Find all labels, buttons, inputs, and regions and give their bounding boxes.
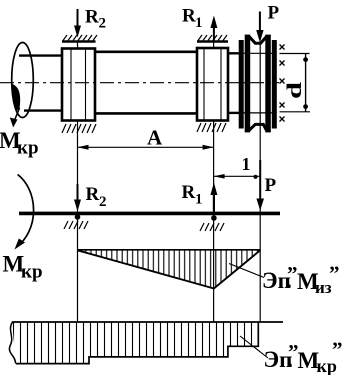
- bearing right: support top line: [197, 40, 228, 43]
- torque Mkr tail arrow: [14, 108, 20, 122]
- leader line Mkr: [240, 336, 268, 358]
- bearing right: bottom hatch: [197, 123, 226, 132]
- svg-text:d: d: [282, 82, 306, 99]
- schematic force R2 arrow: [77, 184, 79, 204]
- schematic R2 node dot: [75, 214, 81, 220]
- shaft right stub: [227, 53, 240, 113]
- bearing left: support top hatch: [63, 35, 97, 41]
- dimension d: extension lines: [280, 53, 310, 55]
- pulley shaft through-lines: [240, 52, 276, 54]
- svg-text:”: ”: [287, 262, 298, 286]
- svg-text:R: R: [182, 6, 196, 27]
- force R2 top arrow: [77, 9, 79, 30]
- pulley top groove: [249, 37, 266, 44]
- svg-text:R: R: [182, 182, 196, 203]
- bearing left: bottom hatch: [62, 124, 96, 133]
- schematic force R1 arrow: [210, 183, 217, 196]
- pulley right wall: [272, 40, 277, 129]
- svg-text:”: ”: [329, 262, 340, 286]
- wire: projection line R1 (x=213.6): [213, 42, 215, 322]
- bearing right: support top hatch: [198, 35, 227, 41]
- bearing right: block: [197, 48, 228, 121]
- torque Mkr ellipse symbol at shaft end: [12, 43, 34, 118]
- svg-text:”: ”: [332, 338, 343, 362]
- pulley right flange: [265, 35, 271, 133]
- bending moment triangle hatch fill: [78, 250, 261, 289]
- torque Mkr arrowhead blob: [12, 84, 20, 111]
- bending moment triangle edges: [78, 250, 261, 288]
- svg-text:1: 1: [242, 154, 251, 174]
- svg-text:R: R: [85, 7, 99, 28]
- svg-text:кр: кр: [21, 262, 43, 283]
- torque diagram wavy break edge: [9, 322, 15, 364]
- schematic torque arc: [18, 174, 34, 246]
- schematic R2 support hatch: [64, 221, 88, 229]
- force P top arrow: [259, 12, 261, 34]
- svg-text:R: R: [86, 184, 100, 205]
- wire: projection line R2 (x=77.5): [77, 42, 79, 322]
- schematic R1 node dot: [211, 215, 217, 221]
- bearing left: support top line: [62, 40, 96, 43]
- pulley bottom groove: [249, 124, 266, 130]
- torque diagram outline: [12, 322, 283, 364]
- torque diagram hatch fill: [12, 322, 258, 364]
- svg-text:P: P: [265, 175, 277, 196]
- leader line Mis: [229, 264, 264, 278]
- svg-text:1: 1: [195, 15, 203, 31]
- bending moment diagram baseline: [78, 249, 261, 251]
- force R1 top arrow: [213, 19, 215, 41]
- svg-text:1: 1: [195, 192, 203, 208]
- svg-text:А: А: [147, 126, 163, 150]
- shaft left section: [19, 56, 62, 111]
- pulley left wall: [239, 40, 244, 129]
- svg-text:2: 2: [99, 16, 107, 32]
- dimension d: line and dots: [305, 54, 307, 112]
- svg-text:2: 2: [99, 194, 107, 210]
- svg-text:кр: кр: [17, 138, 39, 159]
- x-marks on pulley right edge: [280, 45, 285, 122]
- schematic force P arrow: [256, 199, 264, 211]
- svg-text:P: P: [268, 3, 280, 24]
- pulley left flange: [245, 35, 251, 133]
- dimension l line: [214, 175, 261, 177]
- schematic R1 support hatch: [200, 223, 224, 231]
- bearing left: block: [62, 49, 95, 121]
- beam line: [19, 212, 280, 216]
- shaft middle section: [95, 52, 197, 114]
- wire: projection line P (x=260.2): [259, 42, 261, 322]
- dimension A line with arrows: [78, 146, 214, 148]
- centerline of shaft (dash-dot): [0, 82, 279, 84]
